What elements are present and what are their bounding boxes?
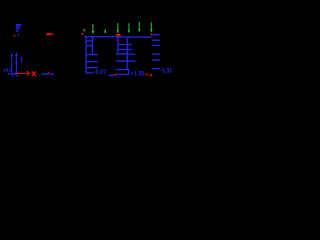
svg-text:+1.35: +1.35: [131, 70, 145, 77]
svg-text:-1.31: -1.31: [160, 68, 172, 75]
svg-text:-0.07: -0.07: [94, 69, 107, 76]
